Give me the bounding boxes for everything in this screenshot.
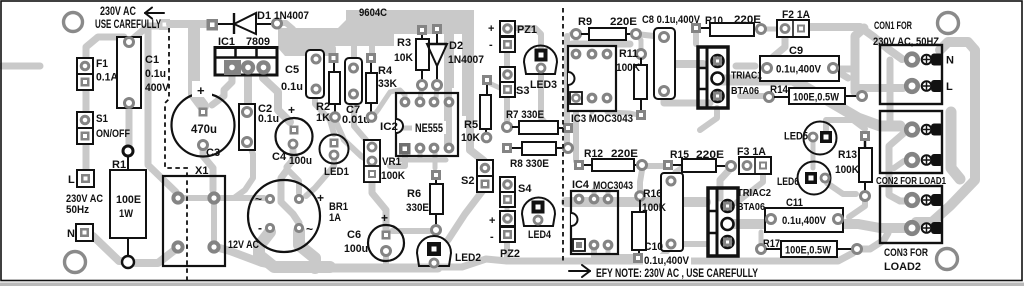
svg-text:BTA06: BTA06 [731,85,759,97]
arrow left [145,8,164,19]
LED4 [522,198,555,242]
connector CON2 [876,111,946,187]
wire [590,100,595,112]
svg-text:100E,0.5W: 100E,0.5W [793,92,840,104]
svg-text:R4: R4 [378,65,393,77]
wire [637,35,641,50]
wire [607,100,638,115]
optocoupler IC4 MOC3043 [571,179,633,254]
wire [444,88,452,148]
wire [277,23,293,29]
svg-text:1N4007: 1N4007 [274,10,309,22]
svg-text:1K: 1K [316,112,330,124]
svg-text:+: + [381,211,388,225]
wire [566,197,706,207]
wire [244,70,252,104]
wire [761,27,779,32]
resistor R15 [663,149,736,172]
wire [592,190,597,201]
svg-text:CON1 FOR: CON1 FOR [874,20,912,32]
wire [894,161,904,168]
svg-text:C4: C4 [272,151,287,163]
svg-text:S2: S2 [461,175,474,187]
wire [287,169,299,193]
wire [732,219,858,229]
capacitor C11 [765,197,843,232]
wire [86,37,124,64]
wire [446,104,452,144]
svg-text:ON/OFF: ON/OFF [96,128,130,140]
wire [83,78,90,122]
capacitor C8 [642,14,701,99]
wire [811,142,816,168]
svg-text:0.1u,400V: 0.1u,400V [644,255,690,267]
wire [312,54,318,60]
svg-text:PZ2: PZ2 [500,248,520,260]
svg-text:PZ1: PZ1 [517,24,537,36]
svg-text:9604C: 9604C [359,7,387,19]
fuse F1 [77,58,118,90]
svg-text:330E: 330E [406,202,429,214]
wire [572,41,630,48]
wire [857,233,888,249]
wire [889,133,906,201]
connector CON1 [873,20,954,104]
triac TRIAC2 BTA06 [708,187,771,256]
svg-text:~: ~ [255,192,262,206]
wire [636,34,654,36]
wire [700,108,717,130]
svg-text:+: + [488,23,494,35]
wire [93,236,128,261]
svg-text:S4: S4 [518,183,532,195]
wire [372,180,386,230]
svg-text:N: N [67,228,75,240]
terminal L [68,170,94,187]
connector CON3 [880,186,943,273]
capacitor C3 470u [172,81,235,159]
wire [448,189,484,240]
EFY note arrow [569,265,590,277]
wire [693,33,699,44]
LED3 [524,46,557,91]
LED2 [417,236,481,267]
svg-text:0.1u: 0.1u [258,113,279,125]
svg-text:D1: D1 [257,10,271,22]
wire [182,195,264,201]
wire [759,232,764,247]
capacitor C4 100u [272,103,313,167]
wire [676,60,703,68]
svg-text:10K: 10K [461,132,480,144]
preset VR1 [364,140,405,182]
svg-text:-: - [489,39,493,51]
svg-text:C6: C6 [347,229,361,241]
svg-text:LED6: LED6 [777,176,799,188]
resistor R10 [691,14,766,36]
svg-text:USE CAREFULLY: USE CAREFULLY [95,19,161,31]
wire [216,247,272,265]
resistor R4 [366,53,397,121]
wire [916,42,975,222]
svg-text:EFY NOTE: 230V AC , USE CAREFU: EFY NOTE: 230V AC , USE CAREFULLY [596,268,758,280]
svg-text:0.1u,400V: 0.1u,400V [776,64,822,76]
wire [330,48,336,56]
terminal N [67,224,93,241]
svg-text:~: ~ [306,222,313,236]
wire [420,87,422,98]
svg-text:S3: S3 [516,85,529,97]
wire [640,170,642,192]
warning label 230V AC USE CAREFULLY [95,6,161,31]
svg-text:BTA06: BTA06 [737,201,765,213]
svg-text:100E,0.5W: 100E,0.5W [785,245,832,257]
piezo PZ2 [489,211,520,260]
resistor R5 [461,75,492,144]
svg-text:IC2: IC2 [380,121,398,133]
svg-text:100K: 100K [381,170,405,182]
wire [263,72,290,122]
wire [571,32,574,37]
wire [194,26,203,106]
wire [639,250,668,258]
wire [371,90,405,119]
wire [736,63,755,70]
svg-text:1A: 1A [329,212,341,224]
svg-text:R9: R9 [578,16,592,28]
switch S2 [461,160,493,192]
fuse F3 [737,146,771,174]
svg-text:0.01u: 0.01u [342,114,370,126]
svg-text:IC3 MOC3043: IC3 MOC3043 [571,113,633,125]
resistor R3 [394,25,429,90]
LED1 [320,135,350,179]
wire [564,36,570,148]
svg-text:D2: D2 [449,40,463,52]
switch S3 [500,67,529,97]
fuse F2 [777,9,810,37]
wire [148,27,176,192]
wire [722,80,900,126]
wire [664,92,710,103]
wire [507,253,853,261]
svg-text:C5: C5 [285,64,299,76]
wire [855,28,864,92]
resistor R7 [503,109,574,134]
wire [315,87,334,134]
wire [234,146,253,198]
svg-text:C1: C1 [145,54,159,66]
wire [433,150,438,168]
wire [951,112,960,179]
svg-text:100u: 100u [289,155,312,167]
svg-text:TRIAC1: TRIAC1 [731,70,762,82]
wire [504,240,510,258]
svg-text:LED4: LED4 [528,229,552,241]
capacitor C10 [643,173,691,267]
resistor R13 [835,131,872,201]
capacitor C5 [281,50,324,98]
svg-text:220E: 220E [610,16,637,28]
svg-text:0.1u: 0.1u [281,81,303,93]
svg-text:S1: S1 [96,113,108,125]
wire [736,170,763,203]
dashed mains boundary right [562,8,564,261]
wire [887,60,894,125]
copper pour top [278,10,474,116]
wire [671,241,706,247]
wire [135,249,176,263]
wire [505,200,510,224]
wire [720,168,731,198]
mounting hole top-left [64,13,83,32]
piezo PZ1 [488,21,537,52]
svg-text:LED2: LED2 [455,252,481,264]
svg-text:100E: 100E [116,194,141,206]
svg-text:1W: 1W [119,208,134,220]
svg-text:10K: 10K [394,52,413,64]
wire [740,93,769,99]
svg-text:NE555: NE555 [415,123,443,135]
svg-text:230V AC: 230V AC [100,6,136,18]
svg-text:50Hz: 50Hz [66,204,89,216]
wire [849,198,865,217]
wire [203,147,213,190]
wire [833,66,852,73]
wire [606,247,611,252]
wire [170,20,206,28]
wire [440,259,507,267]
svg-text:L: L [946,81,953,93]
diode D1 [207,10,310,34]
wire [504,50,510,68]
wire [590,40,595,50]
LED6 [777,162,831,195]
wire [369,46,375,56]
wire [489,83,502,89]
resistor R17 [757,238,862,257]
wire [594,247,636,257]
optocoupler IC3 MOC3043 [568,46,633,125]
mounting hole bottom-right [937,249,958,270]
svg-text:L: L [68,174,75,186]
wire [855,84,903,92]
wire [83,135,90,176]
wire [646,163,664,169]
wire [436,87,437,98]
resistor R16 [632,188,666,263]
LED5 [784,122,837,155]
capacitor C6 100u [344,211,404,261]
svg-text:0.1A: 0.1A [96,72,118,84]
wire [675,166,700,178]
bridge rectifier BR1 [248,180,348,252]
svg-text:R16: R16 [643,188,662,200]
wire [826,120,865,130]
switch S1 [77,112,130,144]
wire [354,99,366,140]
wire [306,157,334,196]
capacitor C7 [342,58,370,126]
svg-text:-: - [490,231,494,243]
svg-text:R8 330E: R8 330E [510,158,549,170]
svg-text:R11: R11 [619,48,638,60]
wire [259,232,330,267]
svg-text:CON3 FOR: CON3 FOR [884,247,928,259]
svg-text:R13: R13 [838,149,857,161]
svg-text:0.1u: 0.1u [145,68,166,80]
svg-text:1N4007: 1N4007 [448,54,484,66]
wire [804,27,902,59]
svg-text:LOAD2: LOAD2 [884,261,921,273]
resistor R14 [765,84,867,104]
svg-text:+: + [288,103,295,117]
svg-text:R7 330E: R7 330E [506,109,544,121]
wire [470,114,484,161]
resistor R1 [110,146,146,268]
wire [330,264,438,273]
wire [126,103,133,150]
svg-text:+: + [489,215,495,227]
wire [574,40,579,50]
svg-text:+: + [317,191,324,205]
wire [392,228,430,234]
svg-text:0.1u,400V: 0.1u,400V [782,215,827,227]
wire [299,231,315,268]
wire [541,70,547,125]
svg-text:100u: 100u [344,243,368,255]
wire [605,40,610,50]
svg-text:12V AC: 12V AC [228,239,259,251]
wire [212,72,232,105]
svg-text:+: + [197,83,205,98]
mounting hole top-right [938,13,959,34]
wire [398,126,420,131]
resistor R6 [406,170,443,235]
wire [836,221,841,224]
wire [773,36,785,57]
diode D2 [427,24,484,90]
resistor R12 [574,148,647,171]
switch S4 [500,177,532,207]
svg-text:R6: R6 [407,188,421,200]
resistor R11 [616,48,647,120]
wire [335,120,366,159]
wire [211,203,217,242]
wire [827,183,856,194]
resistor R9 [572,16,641,40]
wire [833,69,848,78]
wire [769,221,774,224]
wire [420,158,446,163]
svg-text:IC4: IC4 [572,179,590,191]
svg-text:N: N [946,55,954,67]
capacitor C9 [760,45,839,81]
dashed mains boundary left [165,28,187,280]
timer IC2 NE555 [380,93,458,156]
wire [351,46,357,64]
wire [573,100,579,161]
triac TRIAC1 BTA06 [698,47,762,108]
svg-text:-: - [258,221,262,235]
capacitor C1 [117,37,170,108]
wire [863,142,867,148]
wire [504,95,510,121]
wire [281,150,299,223]
svg-text:100K: 100K [835,164,859,176]
wire [2,63,40,70]
wire [858,224,906,228]
svg-text:LED1: LED1 [324,166,349,178]
svg-text:TRIAC2: TRIAC2 [737,187,771,199]
mounting hole bottom-left [65,252,86,273]
svg-text:VR1: VR1 [382,156,401,168]
wire [383,254,389,264]
svg-text:33K: 33K [378,78,397,90]
resistor R8 [502,142,573,170]
wire [390,150,405,166]
svg-text:LED3: LED3 [530,79,557,91]
svg-text:R3: R3 [397,37,411,49]
capacitor C2 [239,103,279,150]
regulator IC1 7809 [215,36,277,75]
wire [400,150,420,160]
svg-text:400V: 400V [145,82,170,94]
svg-text:470u: 470u [191,124,217,136]
svg-text:C3: C3 [206,147,220,159]
svg-text:R5: R5 [464,119,478,131]
svg-text:F1: F1 [96,58,108,70]
wire [514,28,541,47]
wire [129,26,164,42]
wire [606,190,611,201]
svg-text:100K: 100K [616,62,640,74]
transformer X1 [163,165,225,266]
label 230V AC 50Hz [66,193,103,216]
resistor R2 [316,53,340,124]
